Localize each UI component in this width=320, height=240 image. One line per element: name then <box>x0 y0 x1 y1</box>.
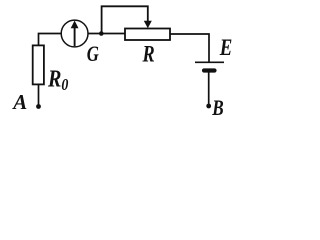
svg-text:R: R <box>142 40 155 67</box>
wire <box>38 85 40 107</box>
resistor R (rheostat) <box>125 29 170 41</box>
junction <box>99 31 104 36</box>
node B <box>206 104 211 109</box>
current source G <box>61 20 88 47</box>
battery E positive plate <box>195 61 224 63</box>
wire <box>88 33 125 35</box>
wire <box>170 34 209 62</box>
svg-text:E: E <box>219 34 232 61</box>
svg-text:G: G <box>87 43 99 67</box>
wire <box>39 34 62 46</box>
node A <box>36 104 41 109</box>
battery E negative plate <box>204 68 215 72</box>
rheostat wiper arrow <box>144 21 152 29</box>
resistor R0 <box>33 45 44 84</box>
wire (wiper loop) <box>102 6 148 33</box>
svg-text:A: A <box>11 90 27 114</box>
wire <box>208 73 210 107</box>
svg-text:B: B <box>211 96 223 121</box>
